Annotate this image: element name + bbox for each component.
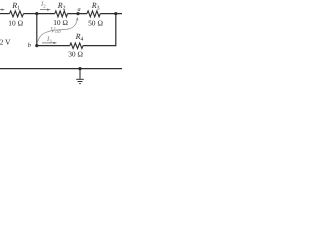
resistor R1 bbox=[10, 11, 24, 17]
svg-text:30 Ω: 30 Ω bbox=[68, 49, 83, 58]
current arrow I1 (label cropped at left edge) bbox=[0, 9, 5, 11]
node b junction dot bbox=[35, 44, 38, 47]
wire vertical right branch bbox=[115, 14, 117, 47]
svg-text:R3: R3 bbox=[91, 1, 100, 12]
svg-text:Vab: Vab bbox=[50, 26, 61, 36]
junction dot top-right bbox=[114, 12, 117, 15]
wire R2 to node a bbox=[68, 13, 88, 15]
junction dot at ground tap bbox=[78, 67, 81, 70]
wire bottom rail bbox=[0, 68, 122, 70]
node a junction dot bbox=[76, 12, 79, 15]
svg-text:10 Ω: 10 Ω bbox=[8, 18, 23, 27]
svg-text:10 Ω: 10 Ω bbox=[53, 18, 68, 27]
wire b to R4 bbox=[37, 45, 70, 47]
wire top-left segment into R1 bbox=[0, 13, 10, 15]
svg-text:R2: R2 bbox=[57, 1, 66, 12]
svg-text:I3: I3 bbox=[46, 36, 52, 44]
svg-text:I2: I2 bbox=[40, 1, 46, 9]
svg-text:b: b bbox=[28, 42, 31, 49]
wire junction to R2 bbox=[37, 13, 55, 15]
resistor R4 bbox=[70, 43, 83, 49]
voltage arrow Vab (curved from b to a) bbox=[37, 17, 78, 43]
junction dot at top-left branch point bbox=[35, 12, 38, 15]
wire R3 to right junction and off right edge bbox=[100, 13, 122, 15]
current arrow I3 bbox=[42, 42, 57, 44]
resistor R3 bbox=[87, 11, 100, 17]
wire R1 to node junction bbox=[24, 13, 38, 15]
svg-text:R1: R1 bbox=[11, 1, 20, 12]
wire vertical left branch (node to b) bbox=[36, 14, 38, 46]
svg-text:R4: R4 bbox=[75, 32, 84, 43]
wire R4 to right vertical bbox=[83, 45, 116, 47]
svg-text:50 Ω: 50 Ω bbox=[88, 19, 103, 28]
svg-text:12 V: 12 V bbox=[0, 38, 11, 47]
ground bbox=[76, 69, 84, 84]
resistor R2 bbox=[55, 11, 68, 17]
current arrow I2 bbox=[40, 9, 51, 11]
svg-text:a: a bbox=[78, 6, 81, 13]
